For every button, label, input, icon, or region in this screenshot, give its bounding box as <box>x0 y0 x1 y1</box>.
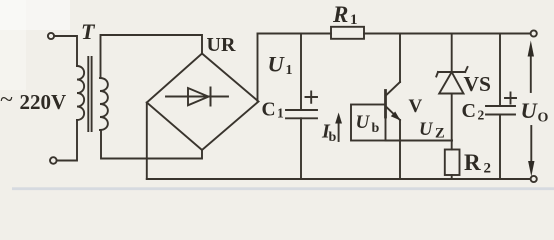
wire: bridge positive (right vertex) up <box>257 34 259 102</box>
wire: C1 top lead <box>300 34 302 111</box>
svg-text:2: 2 <box>478 108 485 123</box>
scan light corner wash <box>0 0 70 30</box>
wire: emitter down to negative rail <box>399 120 401 179</box>
terminal: AC input top <box>48 33 54 39</box>
svg-text:VS: VS <box>464 72 492 96</box>
capacitor C1 <box>286 110 317 118</box>
svg-text:V: V <box>409 96 423 117</box>
transformer T secondary winding <box>100 78 108 130</box>
resistor R2 <box>445 150 460 176</box>
emitter arrowhead of V <box>391 112 401 121</box>
wire: bridge negative (left vertex) down <box>146 103 148 180</box>
svg-text:~: ~ <box>0 87 13 113</box>
zener diode VS <box>436 67 467 94</box>
transformer core <box>88 57 91 131</box>
wire: positive rail left of R1 <box>258 33 332 35</box>
wire: R2 bottom stub <box>451 175 453 179</box>
svg-text:Z: Z <box>435 126 445 142</box>
svg-text:C: C <box>462 100 476 122</box>
svg-text:1: 1 <box>277 106 284 121</box>
wire: bottom negative rail <box>147 178 531 180</box>
wire: collector lead from rail <box>399 34 401 83</box>
wire from top terminal to primary <box>54 36 77 66</box>
svg-text:R: R <box>464 150 481 175</box>
wire: secondary bottom to bridge AC2 <box>101 130 202 159</box>
base wire loop (Ub box) <box>351 105 386 141</box>
svg-text:U: U <box>521 98 539 123</box>
svg-text:UR: UR <box>207 34 236 56</box>
wire: positive rail right of R1 <box>364 33 530 35</box>
svg-text:C: C <box>262 100 276 121</box>
wire: zener top lead <box>451 34 453 73</box>
resistor R1 <box>331 27 364 39</box>
wire: base node to zener node (UZ wire) <box>386 140 453 142</box>
svg-text:U: U <box>268 52 286 77</box>
wire: C1 bottom lead <box>300 118 302 179</box>
plus sign of C2 <box>505 93 516 104</box>
plus sign of C1 <box>306 92 318 103</box>
svg-text:1: 1 <box>286 63 293 78</box>
svg-text:b: b <box>372 121 380 136</box>
svg-text:R: R <box>332 2 348 27</box>
transformer T primary winding <box>77 66 84 120</box>
scan artifact streak at bottom <box>12 187 554 190</box>
capacitor C2 <box>486 106 515 115</box>
svg-text:U: U <box>356 112 371 133</box>
wire: zener bottom lead <box>451 94 453 150</box>
bridge rectifier UR (diamond) <box>147 54 259 151</box>
wire: C2 bottom lead <box>499 115 501 180</box>
transistor V <box>386 82 401 120</box>
svg-text:2: 2 <box>484 161 492 177</box>
annotation arrow UO down <box>530 126 532 162</box>
diode inside UR <box>166 88 228 106</box>
terminal: output negative <box>531 176 537 182</box>
terminal: output positive <box>531 30 537 36</box>
svg-text:U: U <box>419 120 434 140</box>
annotation arrow Ib <box>338 122 340 141</box>
annotation arrow UO up <box>530 55 532 92</box>
svg-text:1: 1 <box>350 12 358 28</box>
wire: secondary top to bridge AC1 <box>101 35 203 78</box>
svg-text:220V: 220V <box>20 90 67 114</box>
svg-text:b: b <box>329 130 337 145</box>
wire: C2 top lead <box>499 34 501 107</box>
svg-text:O: O <box>538 111 549 126</box>
svg-text:T: T <box>81 19 96 44</box>
wire from primary to bottom terminal <box>57 120 77 161</box>
terminal: AC input bottom <box>50 157 57 164</box>
